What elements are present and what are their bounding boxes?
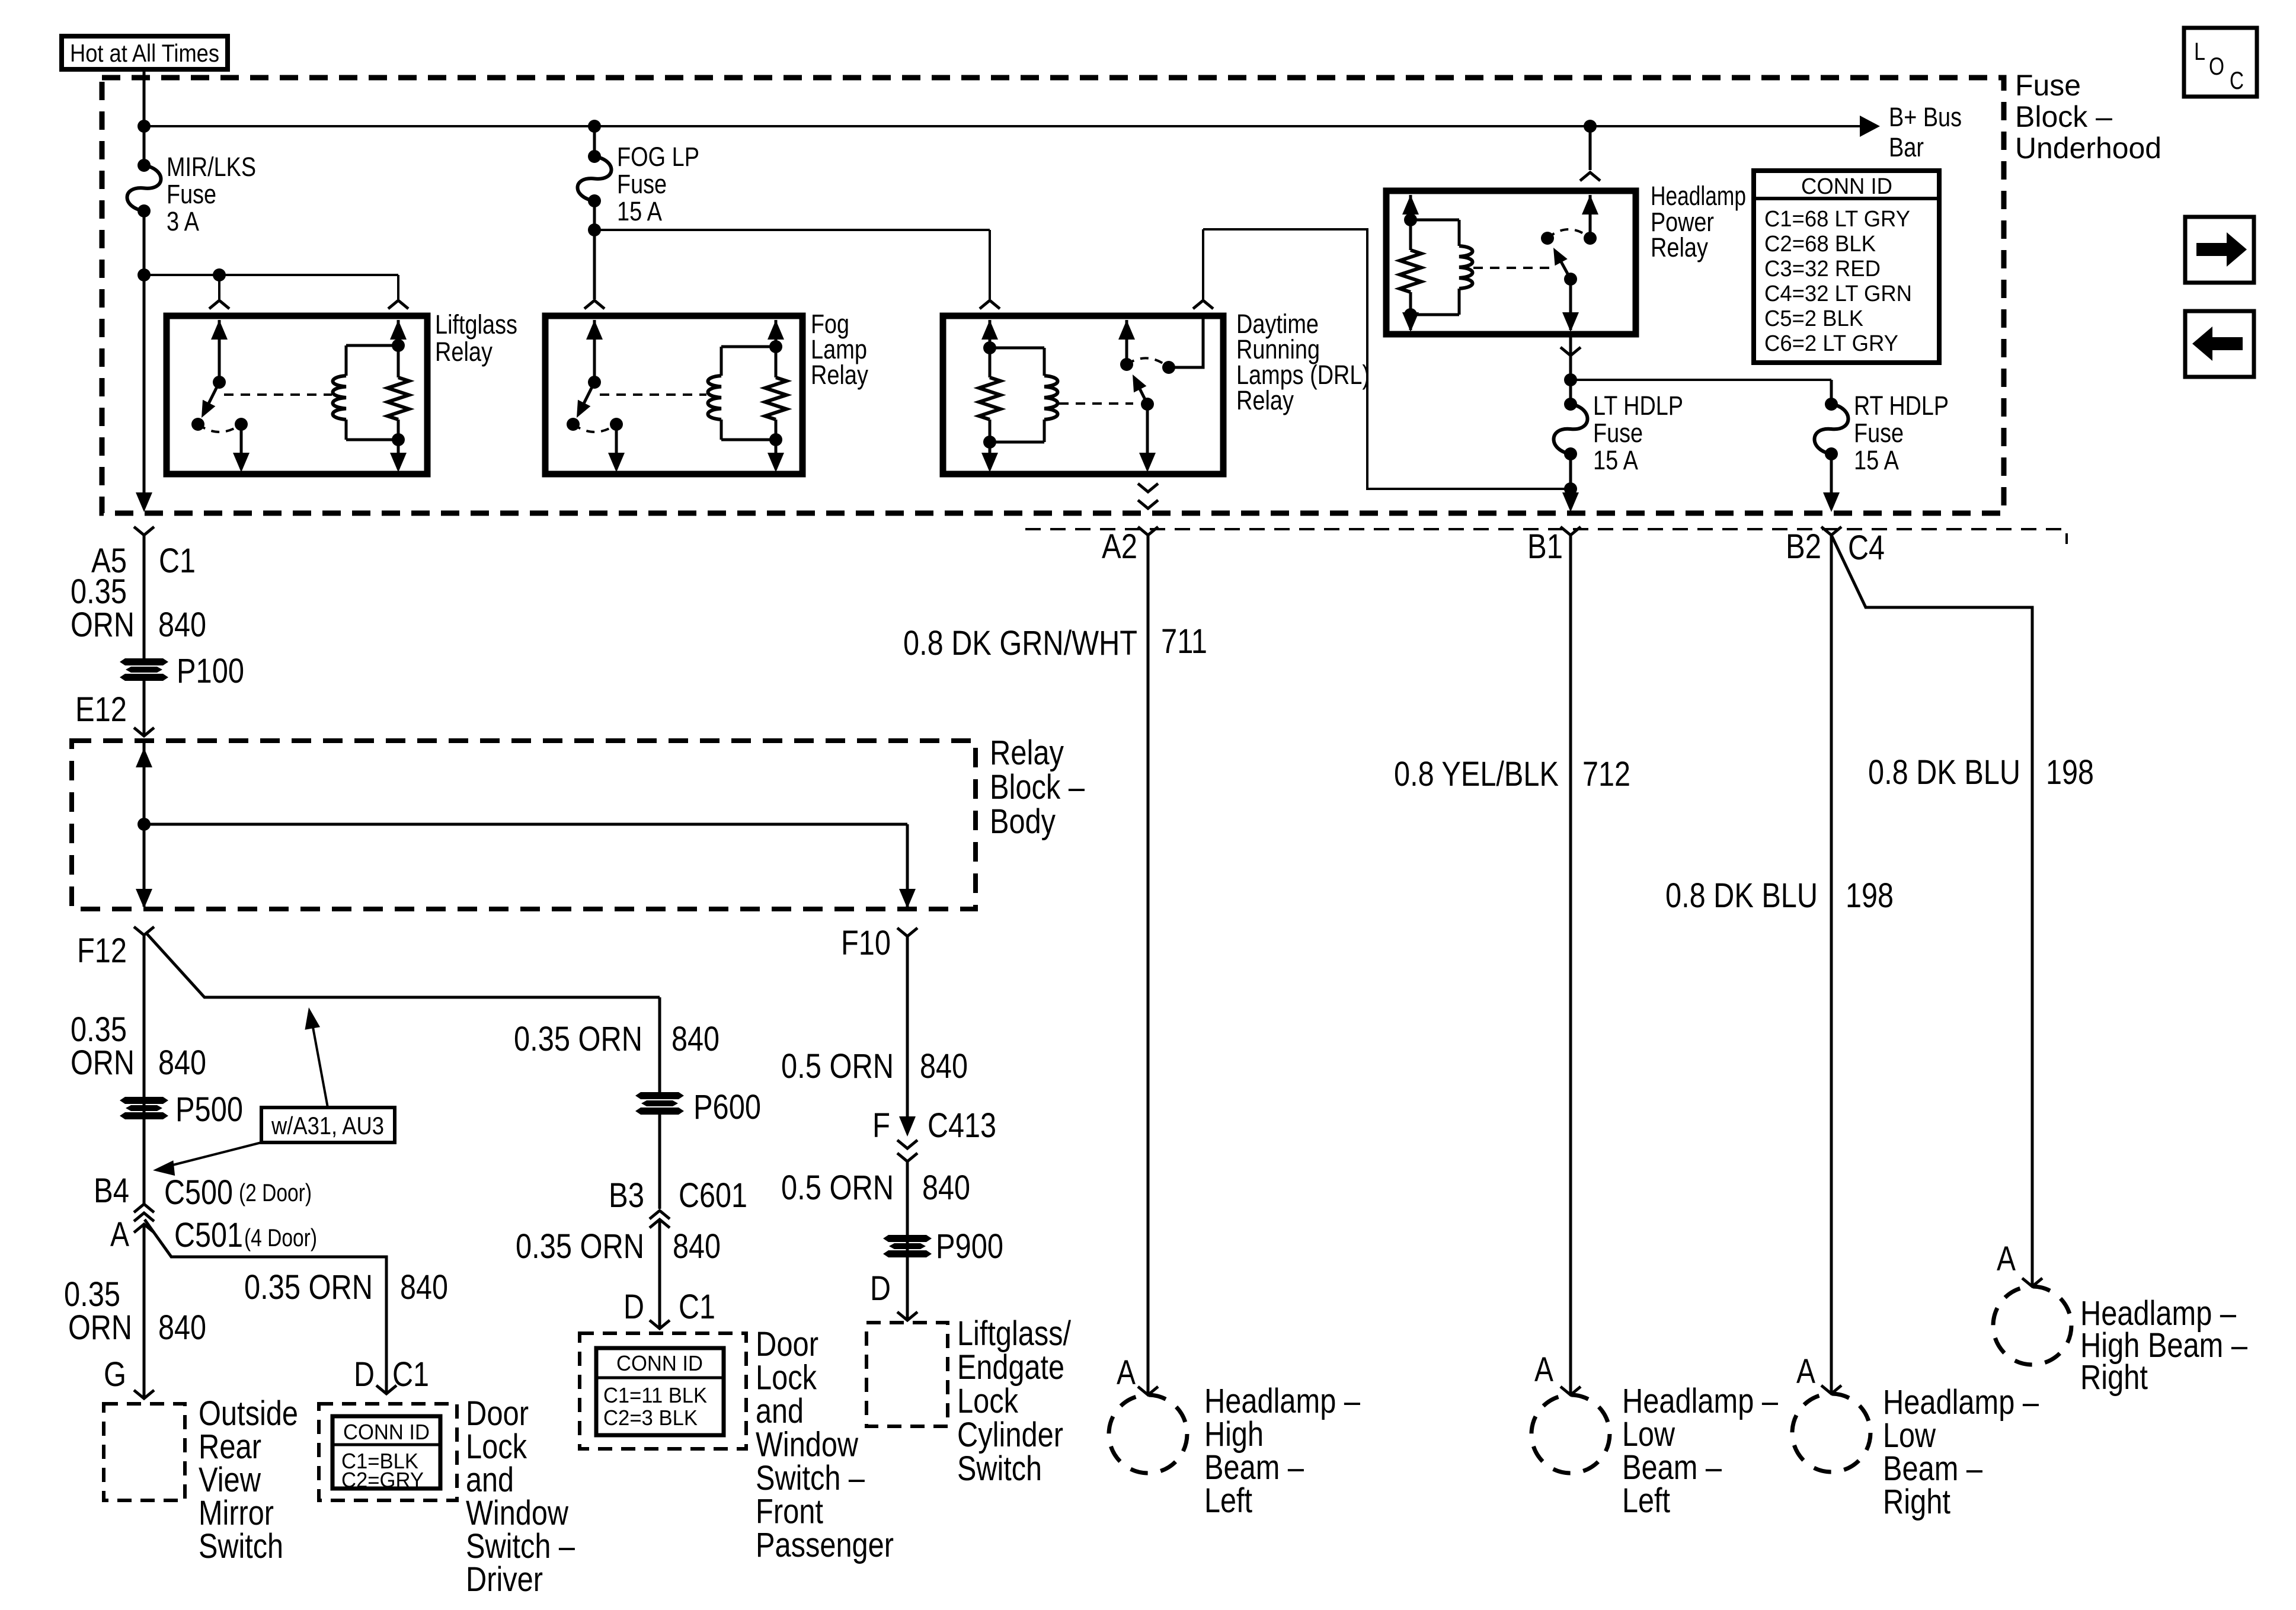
svg-text:Body: Body bbox=[990, 802, 1056, 841]
svg-text:C3=32 RED: C3=32 RED bbox=[1764, 257, 1881, 281]
svg-text:C1: C1 bbox=[159, 542, 196, 580]
svg-text:Endgate: Endgate bbox=[957, 1348, 1064, 1387]
svg-text:0.35 ORN: 0.35 ORN bbox=[244, 1268, 373, 1307]
svg-text:E12: E12 bbox=[75, 690, 127, 729]
svg-text:840: 840 bbox=[158, 1308, 206, 1347]
svg-text:A2: A2 bbox=[1102, 527, 1137, 566]
svg-text:Front: Front bbox=[756, 1493, 823, 1531]
svg-text:L: L bbox=[2194, 37, 2205, 65]
svg-text:C1: C1 bbox=[679, 1288, 715, 1326]
svg-text:Left: Left bbox=[1622, 1481, 1670, 1520]
svg-text:840: 840 bbox=[158, 1044, 206, 1082]
svg-text:C1=11 BLK: C1=11 BLK bbox=[603, 1383, 707, 1407]
svg-text:0.8 YEL/BLK: 0.8 YEL/BLK bbox=[1394, 755, 1559, 793]
svg-text:CONN ID: CONN ID bbox=[1801, 174, 1892, 199]
svg-text:B2: B2 bbox=[1786, 527, 1821, 566]
svg-text:B+ Bus: B+ Bus bbox=[1889, 102, 1962, 132]
svg-text:O: O bbox=[2209, 52, 2224, 80]
svg-text:C2=3 BLK: C2=3 BLK bbox=[603, 1406, 698, 1430]
svg-text:198: 198 bbox=[1846, 876, 1894, 915]
svg-text:F: F bbox=[872, 1106, 890, 1145]
svg-text:F10: F10 bbox=[841, 924, 891, 962]
svg-text:Underhood: Underhood bbox=[2015, 132, 2161, 165]
svg-text:840: 840 bbox=[671, 1020, 720, 1058]
svg-text:Left: Left bbox=[1204, 1481, 1252, 1520]
svg-text:711: 711 bbox=[1161, 622, 1207, 661]
svg-text:G: G bbox=[104, 1355, 126, 1394]
svg-text:A: A bbox=[1997, 1240, 2016, 1278]
svg-text:Fuse: Fuse bbox=[2015, 69, 2081, 102]
svg-text:0.8 DK GRN/WHT: 0.8 DK GRN/WHT bbox=[903, 624, 1137, 662]
svg-text:Right: Right bbox=[1883, 1483, 1950, 1521]
svg-text:Relay: Relay bbox=[990, 734, 1064, 772]
svg-text:Fuse: Fuse bbox=[167, 179, 216, 209]
svg-text:C2=68 BLK: C2=68 BLK bbox=[1764, 232, 1876, 257]
svg-text:D: D bbox=[354, 1355, 375, 1394]
svg-text:(2 Door): (2 Door) bbox=[239, 1179, 312, 1206]
svg-text:D: D bbox=[870, 1269, 891, 1308]
svg-text:ORN: ORN bbox=[68, 1308, 132, 1347]
svg-text:CONN ID: CONN ID bbox=[343, 1420, 430, 1444]
svg-text:840: 840 bbox=[400, 1268, 448, 1307]
svg-text:Block –: Block – bbox=[2015, 100, 2112, 133]
svg-text:A: A bbox=[110, 1215, 129, 1254]
svg-text:C4=32 LT GRN: C4=32 LT GRN bbox=[1764, 281, 1912, 306]
svg-text:0.8 DK BLU: 0.8 DK BLU bbox=[1868, 753, 2020, 792]
svg-text:C4: C4 bbox=[1848, 529, 1885, 567]
svg-text:MIR/LKS: MIR/LKS bbox=[167, 152, 256, 182]
svg-text:B3: B3 bbox=[609, 1176, 644, 1215]
svg-text:0.5 ORN: 0.5 ORN bbox=[781, 1047, 894, 1086]
svg-text:and: and bbox=[756, 1392, 804, 1430]
svg-text:840: 840 bbox=[158, 606, 206, 644]
svg-text:B1: B1 bbox=[1527, 527, 1563, 566]
svg-text:840: 840 bbox=[922, 1169, 970, 1207]
svg-text:Right: Right bbox=[2080, 1358, 2148, 1397]
svg-text:C1: C1 bbox=[392, 1355, 429, 1394]
svg-text:Bar: Bar bbox=[1889, 132, 1924, 162]
svg-text:0.35 ORN: 0.35 ORN bbox=[514, 1020, 642, 1058]
svg-text:Relay: Relay bbox=[1651, 232, 1708, 263]
svg-text:Block –: Block – bbox=[990, 768, 1085, 806]
svg-text:Fuse: Fuse bbox=[1854, 418, 1904, 448]
svg-text:Lock: Lock bbox=[756, 1359, 817, 1397]
svg-text:P600: P600 bbox=[693, 1088, 761, 1126]
svg-text:Switch: Switch bbox=[957, 1449, 1042, 1488]
svg-text:Relay: Relay bbox=[811, 360, 868, 390]
svg-text:Lock: Lock bbox=[957, 1382, 1019, 1420]
svg-text:Passenger: Passenger bbox=[756, 1526, 894, 1564]
svg-text:C5=2 BLK: C5=2 BLK bbox=[1764, 306, 1863, 331]
svg-text:D: D bbox=[623, 1288, 644, 1326]
svg-text:C500: C500 bbox=[164, 1173, 233, 1212]
svg-text:0.8 DK BLU: 0.8 DK BLU bbox=[1665, 876, 1818, 915]
svg-text:w/A31, AU3: w/A31, AU3 bbox=[271, 1112, 384, 1140]
svg-text:Switch –: Switch – bbox=[756, 1459, 865, 1497]
svg-text:Door: Door bbox=[756, 1325, 818, 1363]
svg-text:15 A: 15 A bbox=[1593, 445, 1638, 475]
svg-text:712: 712 bbox=[1582, 755, 1630, 793]
svg-text:C1=68 LT GRY: C1=68 LT GRY bbox=[1764, 207, 1910, 232]
svg-text:C2=GRY: C2=GRY bbox=[341, 1468, 424, 1492]
svg-text:F12: F12 bbox=[77, 932, 127, 970]
svg-text:FOG LP: FOG LP bbox=[617, 142, 699, 172]
svg-text:840: 840 bbox=[673, 1227, 721, 1266]
svg-text:Hot at All Times: Hot at All Times bbox=[70, 39, 219, 67]
svg-text:Liftglass: Liftglass bbox=[435, 309, 517, 340]
svg-text:Fuse: Fuse bbox=[1593, 418, 1643, 448]
svg-text:CONN ID: CONN ID bbox=[616, 1351, 703, 1375]
svg-text:Window: Window bbox=[756, 1426, 859, 1464]
svg-text:Driver: Driver bbox=[466, 1560, 543, 1599]
svg-text:198: 198 bbox=[2046, 753, 2094, 792]
svg-text:C413: C413 bbox=[928, 1106, 996, 1145]
svg-text:15 A: 15 A bbox=[617, 196, 662, 226]
svg-text:Relay: Relay bbox=[435, 337, 493, 367]
svg-text:C: C bbox=[2230, 66, 2244, 94]
svg-text:Liftglass/: Liftglass/ bbox=[957, 1314, 1072, 1353]
svg-text:Switch: Switch bbox=[199, 1527, 283, 1566]
svg-text:B4: B4 bbox=[94, 1172, 129, 1210]
svg-text:C501: C501 bbox=[174, 1216, 243, 1254]
svg-text:3 A: 3 A bbox=[167, 206, 199, 236]
svg-text:LT HDLP: LT HDLP bbox=[1593, 391, 1683, 421]
svg-text:Relay: Relay bbox=[1236, 385, 1294, 415]
svg-text:(4 Door): (4 Door) bbox=[244, 1224, 317, 1251]
svg-text:RT HDLP: RT HDLP bbox=[1854, 391, 1949, 421]
svg-text:Fuse: Fuse bbox=[617, 169, 667, 199]
svg-text:Cylinder: Cylinder bbox=[957, 1416, 1063, 1454]
svg-text:P100: P100 bbox=[177, 652, 244, 690]
svg-text:P900: P900 bbox=[936, 1227, 1003, 1266]
svg-text:A: A bbox=[1796, 1352, 1815, 1391]
svg-text:C601: C601 bbox=[679, 1176, 747, 1215]
svg-text:0.5 ORN: 0.5 ORN bbox=[781, 1169, 894, 1207]
svg-text:A: A bbox=[1534, 1350, 1553, 1389]
svg-text:ORN: ORN bbox=[71, 1044, 135, 1082]
svg-text:A: A bbox=[1117, 1353, 1136, 1392]
svg-text:840: 840 bbox=[920, 1047, 968, 1086]
svg-text:ORN: ORN bbox=[71, 606, 135, 644]
svg-text:P500: P500 bbox=[175, 1090, 243, 1129]
svg-text:15 A: 15 A bbox=[1854, 445, 1899, 475]
svg-text:C6=2 LT GRY: C6=2 LT GRY bbox=[1764, 331, 1898, 356]
svg-text:0.35 ORN: 0.35 ORN bbox=[516, 1227, 644, 1266]
